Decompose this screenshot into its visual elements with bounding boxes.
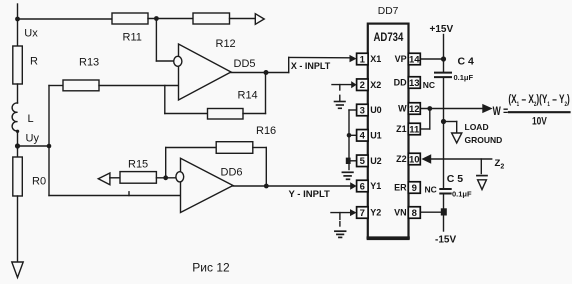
svg-text:VP: VP	[395, 54, 407, 64]
svg-text:7: 7	[360, 208, 365, 219]
svg-text:10: 10	[409, 154, 420, 165]
svg-text:10V: 10V	[532, 115, 547, 127]
svg-text:(X1 – X2)(Y1 – Y2): (X1 – X2)(Y1 – Y2)	[508, 94, 569, 109]
svg-text:R12: R12	[216, 38, 236, 50]
svg-text:Рис 12: Рис 12	[192, 260, 230, 274]
svg-text:W: W	[398, 104, 407, 114]
svg-text:X1: X1	[370, 54, 381, 64]
svg-text:R15: R15	[128, 159, 148, 171]
svg-text:C 4: C 4	[458, 56, 475, 68]
svg-text:1: 1	[360, 54, 366, 65]
svg-text:X - INPLT: X - INPLT	[291, 61, 331, 71]
svg-text:DD6: DD6	[221, 167, 243, 179]
svg-text:R16: R16	[256, 125, 276, 137]
svg-text:Uy: Uy	[26, 133, 40, 145]
svg-text:0.1μF: 0.1μF	[452, 189, 472, 198]
svg-text:Y2: Y2	[370, 208, 381, 218]
svg-text:12: 12	[409, 104, 420, 115]
svg-text:-15V: -15V	[435, 235, 456, 246]
svg-text:R11: R11	[123, 32, 142, 44]
svg-text:Y - INPLT: Y - INPLT	[289, 189, 331, 200]
svg-text:Z2: Z2	[396, 154, 407, 164]
svg-text:DD7: DD7	[378, 6, 399, 17]
svg-text:C 5: C 5	[447, 173, 464, 185]
svg-text:R13: R13	[79, 57, 99, 69]
svg-text:Ux: Ux	[24, 28, 38, 40]
svg-text:R0: R0	[32, 176, 46, 188]
svg-text:DD5: DD5	[234, 58, 256, 70]
svg-text:Y1: Y1	[370, 181, 381, 191]
svg-text:DD: DD	[394, 78, 407, 88]
svg-text:X2: X2	[370, 80, 381, 90]
svg-text:6: 6	[360, 181, 365, 192]
svg-text:Z1: Z1	[396, 124, 407, 134]
svg-text:L: L	[28, 113, 34, 125]
svg-text:NC: NC	[423, 80, 435, 90]
svg-text:13: 13	[409, 78, 420, 89]
svg-text:U1: U1	[370, 131, 382, 141]
svg-text:NC: NC	[425, 185, 437, 195]
svg-text:R14: R14	[238, 90, 258, 102]
svg-text:4: 4	[360, 131, 366, 142]
svg-text:14: 14	[409, 54, 420, 65]
svg-text:9: 9	[412, 183, 417, 194]
svg-text:0.1μF: 0.1μF	[454, 73, 474, 82]
svg-text:11: 11	[409, 124, 420, 135]
svg-text:3: 3	[360, 105, 365, 116]
svg-text:U0: U0	[370, 105, 382, 115]
svg-text:U2: U2	[370, 156, 382, 166]
svg-text:GROUND: GROUND	[465, 135, 503, 145]
svg-text:ER: ER	[394, 183, 407, 193]
svg-text:Z2: Z2	[495, 158, 505, 171]
svg-text:AD734: AD734	[373, 31, 403, 44]
svg-text:5: 5	[360, 156, 366, 167]
svg-text:R: R	[30, 56, 38, 68]
svg-text:VN: VN	[394, 208, 407, 218]
svg-text:8: 8	[412, 208, 417, 219]
svg-text:LOAD: LOAD	[465, 122, 489, 132]
svg-text:2: 2	[360, 80, 365, 91]
svg-text:+15V: +15V	[430, 24, 454, 35]
svg-text:W =: W =	[493, 106, 509, 119]
